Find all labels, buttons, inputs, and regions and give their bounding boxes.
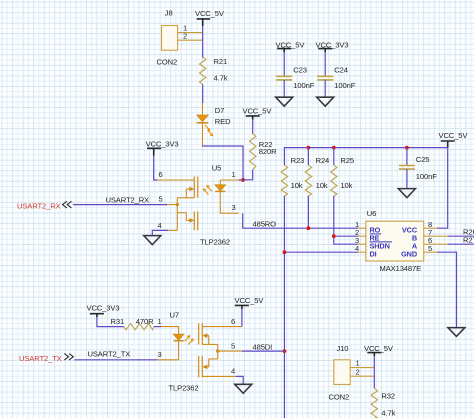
svg-text:TLP2362: TLP2362 xyxy=(169,383,199,392)
ground (U6 GND) xyxy=(448,328,465,337)
U5 LED bottom lead / pin 3 xyxy=(220,192,238,213)
U5 output rail xyxy=(176,198,178,231)
wire DI to U6 pin4 xyxy=(284,251,358,253)
U6 pin 7 xyxy=(424,235,448,237)
diode D7 LED triangle xyxy=(197,115,209,122)
U7 lower transistor gate xyxy=(198,356,200,378)
svg-text:R25: R25 xyxy=(340,156,354,165)
svg-text:VCC_5V: VCC_5V xyxy=(364,344,394,353)
J8 pin 2 xyxy=(178,39,203,41)
U7 internal LED triangle xyxy=(173,334,184,340)
svg-text:R23: R23 xyxy=(291,156,305,165)
svg-text:100nF: 100nF xyxy=(334,81,355,90)
wire 485DI xyxy=(242,350,284,352)
resistor R31 xyxy=(124,323,154,329)
svg-text:R32: R32 xyxy=(381,392,395,401)
resistor R24 xyxy=(305,165,311,196)
power port VCC_5V (top right) bar xyxy=(441,141,455,148)
U7 upper body arrow xyxy=(206,335,209,337)
U6 pin 3 xyxy=(358,243,366,245)
svg-text:VCC_3V3: VCC_3V3 xyxy=(146,139,179,148)
wire R24 top xyxy=(307,148,309,165)
U7 internal LED light arrow 2 xyxy=(188,338,194,344)
diode D7 light arrow 2 xyxy=(208,130,214,136)
svg-text:CON2: CON2 xyxy=(157,58,178,67)
J10 pin 1 xyxy=(350,367,374,369)
diode D7 lead xyxy=(202,103,204,115)
svg-text:VCC_3V3: VCC_3V3 xyxy=(87,303,120,312)
U5 internal LED bar xyxy=(215,190,225,192)
capacitor C24 xyxy=(317,76,333,80)
svg-text:4.7k: 4.7k xyxy=(214,74,228,83)
power port VCC_5V (J8) bar xyxy=(197,19,211,26)
U7 body rail upper xyxy=(208,336,210,345)
svg-text:R31: R31 xyxy=(111,317,125,326)
svg-text:2: 2 xyxy=(183,31,187,40)
wire D7 to junction xyxy=(203,146,244,181)
svg-text:820R: 820R xyxy=(259,147,277,156)
U7 pin 5 junction xyxy=(216,349,219,352)
svg-text:470R: 470R xyxy=(136,317,154,326)
wire U6 VCC to bus xyxy=(437,148,448,229)
svg-text:5: 5 xyxy=(231,341,235,350)
svg-text:R24: R24 xyxy=(316,156,330,165)
U5 upper transistor gate xyxy=(197,177,199,198)
svg-text:VCC_5V: VCC_5V xyxy=(235,296,265,305)
svg-text:VCC_5V: VCC_5V xyxy=(195,9,225,18)
svg-text:10k: 10k xyxy=(291,181,303,190)
junction (R25/RE) xyxy=(332,234,336,238)
power port VCC_5V (J10) bar xyxy=(367,353,381,357)
wire VCC to U7 pin6 xyxy=(241,309,243,327)
svg-text:VCC_5V: VCC_5V xyxy=(243,107,273,116)
diode D7 cathode bar xyxy=(197,122,209,124)
U5 lower transistor gate xyxy=(197,211,199,230)
U7 upper transistor channel xyxy=(201,323,203,344)
wire R31 to U7 pin1 xyxy=(154,326,161,328)
svg-text:1: 1 xyxy=(232,170,236,179)
svg-text:4: 4 xyxy=(355,244,359,253)
U7 upper transistor gate xyxy=(198,323,200,344)
power port VCC_3V3 (U5) bar xyxy=(147,148,161,155)
svg-text:CON2: CON2 xyxy=(329,392,350,401)
U5 internal LED triangle xyxy=(215,185,226,191)
svg-text:6: 6 xyxy=(231,317,235,326)
power port VCC_3V3 (C24) bar xyxy=(318,49,332,53)
wire C23 to ground xyxy=(283,80,285,97)
U7 pin 6 xyxy=(202,326,242,328)
U6 pin 6 xyxy=(424,243,448,245)
junction (DI vertical) xyxy=(283,250,287,254)
svg-text:2: 2 xyxy=(356,367,360,376)
wire U5 pin4 to ground xyxy=(152,230,168,235)
svg-text:USART2_RX: USART2_RX xyxy=(17,202,61,211)
wire VCC_3V3 to U5 pin6 xyxy=(154,156,158,181)
U7 body rail lower xyxy=(208,359,210,367)
U7 rail link xyxy=(209,358,218,360)
junction (485DI) xyxy=(283,349,287,353)
svg-text:USART2_TX: USART2_TX xyxy=(19,354,62,363)
svg-text:GND: GND xyxy=(401,250,417,259)
wire R25 top xyxy=(333,148,335,165)
svg-text:10k: 10k xyxy=(316,181,328,190)
U5 pin 1 wire to junction xyxy=(239,179,244,181)
svg-text:100nF: 100nF xyxy=(293,81,314,90)
wire R25 to U6 pin2 xyxy=(334,235,358,237)
wire C25 top xyxy=(406,148,408,166)
diode D7 light arrow 1 xyxy=(205,125,211,131)
svg-text:5: 5 xyxy=(159,195,163,204)
wire C25 to ground xyxy=(406,169,408,188)
wire U6 pin B out xyxy=(448,235,474,237)
svg-text:MAX13487E: MAX13487E xyxy=(380,264,422,273)
U7 LED bottom lead / pin 3 xyxy=(158,341,179,360)
U7 internal LED light arrow 1 xyxy=(185,335,191,341)
power port VCC_3V3 (R31) bar xyxy=(90,314,104,318)
U5 lower body arrowhead xyxy=(189,218,194,223)
U7 pin 4 xyxy=(202,375,236,377)
junction (485RO/R24) xyxy=(307,226,311,230)
diode D7 lead bottom xyxy=(202,123,204,145)
U6 pin name RE overbar xyxy=(370,233,382,235)
wire C24 to ground xyxy=(324,80,326,97)
U6 pin 4 xyxy=(358,251,366,253)
svg-text:485DI: 485DI xyxy=(253,343,273,352)
svg-text:1: 1 xyxy=(158,317,162,326)
wire R25 to U6 pin2/pin3 xyxy=(334,196,358,244)
IC U6 body xyxy=(366,221,424,261)
J10 pin 2 xyxy=(350,375,374,377)
svg-text:J8: J8 xyxy=(165,9,173,18)
wire U6 GND to ground xyxy=(437,252,457,327)
svg-text:TLP2362: TLP2362 xyxy=(200,238,230,247)
wire R21 to D7 xyxy=(202,85,204,104)
junction (bus/R24) xyxy=(307,146,311,150)
svg-text:100nF: 100nF xyxy=(416,172,437,181)
svg-text:C25: C25 xyxy=(416,155,430,164)
wire DI net xyxy=(283,196,285,418)
svg-text:RED: RED xyxy=(215,117,231,126)
U6 pin 5 xyxy=(424,251,437,253)
connector J10 body xyxy=(334,360,350,385)
U5 upper body arrowhead xyxy=(189,187,194,192)
U5 upper transistor channel xyxy=(193,177,195,198)
wire USART2_RX to U5 pin5 xyxy=(73,204,167,206)
svg-text:USART2_TX: USART2_TX xyxy=(88,350,131,359)
U5 lower body arrow xyxy=(186,219,190,221)
svg-text:4.7k: 4.7k xyxy=(381,408,395,417)
U5 LED top lead / pin 1 xyxy=(220,180,238,185)
U7 upper body arrowhead xyxy=(202,333,207,338)
svg-text:C23: C23 xyxy=(293,65,307,74)
wire pullup bus xyxy=(284,148,447,165)
port USART2_TX chevrons xyxy=(64,354,73,361)
resistor R23 xyxy=(281,165,287,196)
U7 source link upper xyxy=(202,344,217,359)
ground (C23) xyxy=(276,97,293,106)
power port VCC_5V (C23) bar xyxy=(277,49,291,53)
U5 pin 5 junction xyxy=(176,203,179,206)
ground (U7 pin4) xyxy=(235,384,252,393)
svg-text:4: 4 xyxy=(158,221,162,230)
U7 pin 5 xyxy=(218,350,242,352)
ground (C25) xyxy=(398,189,415,198)
svg-text:4: 4 xyxy=(231,367,235,376)
svg-text:U6: U6 xyxy=(367,209,376,218)
U5 pin 4 xyxy=(168,229,177,231)
junction (bus/C25) xyxy=(405,146,409,150)
svg-text:U5: U5 xyxy=(212,164,221,173)
wire VCC to R22 xyxy=(252,120,254,135)
wire U6 pin A out xyxy=(448,243,474,245)
U7 lower body arrow xyxy=(206,366,209,368)
svg-text:D7: D7 xyxy=(215,106,224,115)
svg-text:C24: C24 xyxy=(334,65,348,74)
junction (bus/R25) xyxy=(332,146,336,150)
power port VCC_5V (R22) bar xyxy=(246,116,260,120)
U5 lower transistor channel xyxy=(193,211,195,230)
svg-text:R27: R27 xyxy=(463,236,474,245)
junction (D7/R22/U5 pin1) xyxy=(241,178,245,182)
wire U7 pin4 to ground xyxy=(236,376,243,384)
connector J8 body xyxy=(162,26,178,51)
U5 source link upper xyxy=(177,197,194,199)
U5 internal LED light arrow 2 xyxy=(203,188,209,194)
capacitor C23 xyxy=(276,76,292,80)
wire VCC to J8/R21 xyxy=(202,26,204,58)
wire R22 to junction xyxy=(243,170,253,180)
ground (U5 pin4) xyxy=(144,236,161,245)
wire VCC to C23 xyxy=(283,52,285,76)
wire 485RO xyxy=(243,213,358,228)
resistor R22 xyxy=(250,134,256,170)
U7 lower body arrowhead xyxy=(202,365,207,370)
U5 rail link xyxy=(177,212,186,214)
resistor R25 xyxy=(331,165,337,196)
U5 body rail upper xyxy=(185,189,187,198)
wire VCC to J10/R32 xyxy=(373,356,375,388)
svg-text:10k: 10k xyxy=(340,181,352,190)
wire VCC to C24 xyxy=(324,52,326,76)
wire R24 to 485RO xyxy=(307,196,309,228)
U5 body rail lower xyxy=(185,213,187,221)
wire VCC_3V3 to R31 xyxy=(97,317,124,326)
U5 internal LED light arrow 1 xyxy=(206,185,212,191)
svg-text:R21: R21 xyxy=(214,57,228,66)
U5 pin 6 xyxy=(157,179,194,181)
U5 upper body arrow xyxy=(186,188,190,190)
ground (C24) xyxy=(317,97,334,106)
svg-text:485RO: 485RO xyxy=(253,220,277,229)
svg-text:3: 3 xyxy=(158,350,162,359)
svg-text:U7: U7 xyxy=(170,310,179,319)
power port VCC_5V (U7) bar xyxy=(235,305,249,309)
resistor R32 xyxy=(371,388,377,418)
U6 pin 2 xyxy=(358,235,366,237)
svg-text:USART2_RX: USART2_RX xyxy=(106,195,150,204)
svg-text:VCC_5V: VCC_5V xyxy=(439,131,469,140)
svg-text:J10: J10 xyxy=(337,344,349,353)
port USART2_RX chevrons xyxy=(63,201,72,208)
capacitor C25 xyxy=(399,166,415,170)
U7 internal LED bar xyxy=(174,340,184,342)
resistor R21 xyxy=(200,57,206,85)
U5 pin 5 xyxy=(167,204,177,206)
wire USART2_TX to U7 pin3 xyxy=(74,359,157,361)
svg-text:6: 6 xyxy=(159,170,163,179)
U6 pin 8 xyxy=(424,227,437,229)
J8 pin 1 xyxy=(178,32,203,34)
U6 pin name SHDN overbar xyxy=(370,241,393,243)
U7 lower transistor channel xyxy=(201,356,203,378)
U6 pin 1 xyxy=(358,227,366,229)
U7 pin 1 xyxy=(161,327,179,335)
svg-text:DI: DI xyxy=(370,250,377,259)
svg-text:5: 5 xyxy=(428,244,432,253)
svg-text:3: 3 xyxy=(232,203,236,212)
